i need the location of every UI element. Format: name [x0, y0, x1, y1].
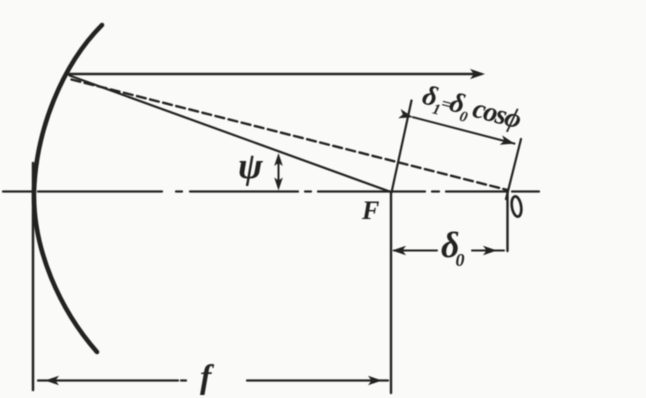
svg-text:F: F: [361, 196, 379, 225]
svg-text:ψ: ψ: [238, 146, 263, 187]
